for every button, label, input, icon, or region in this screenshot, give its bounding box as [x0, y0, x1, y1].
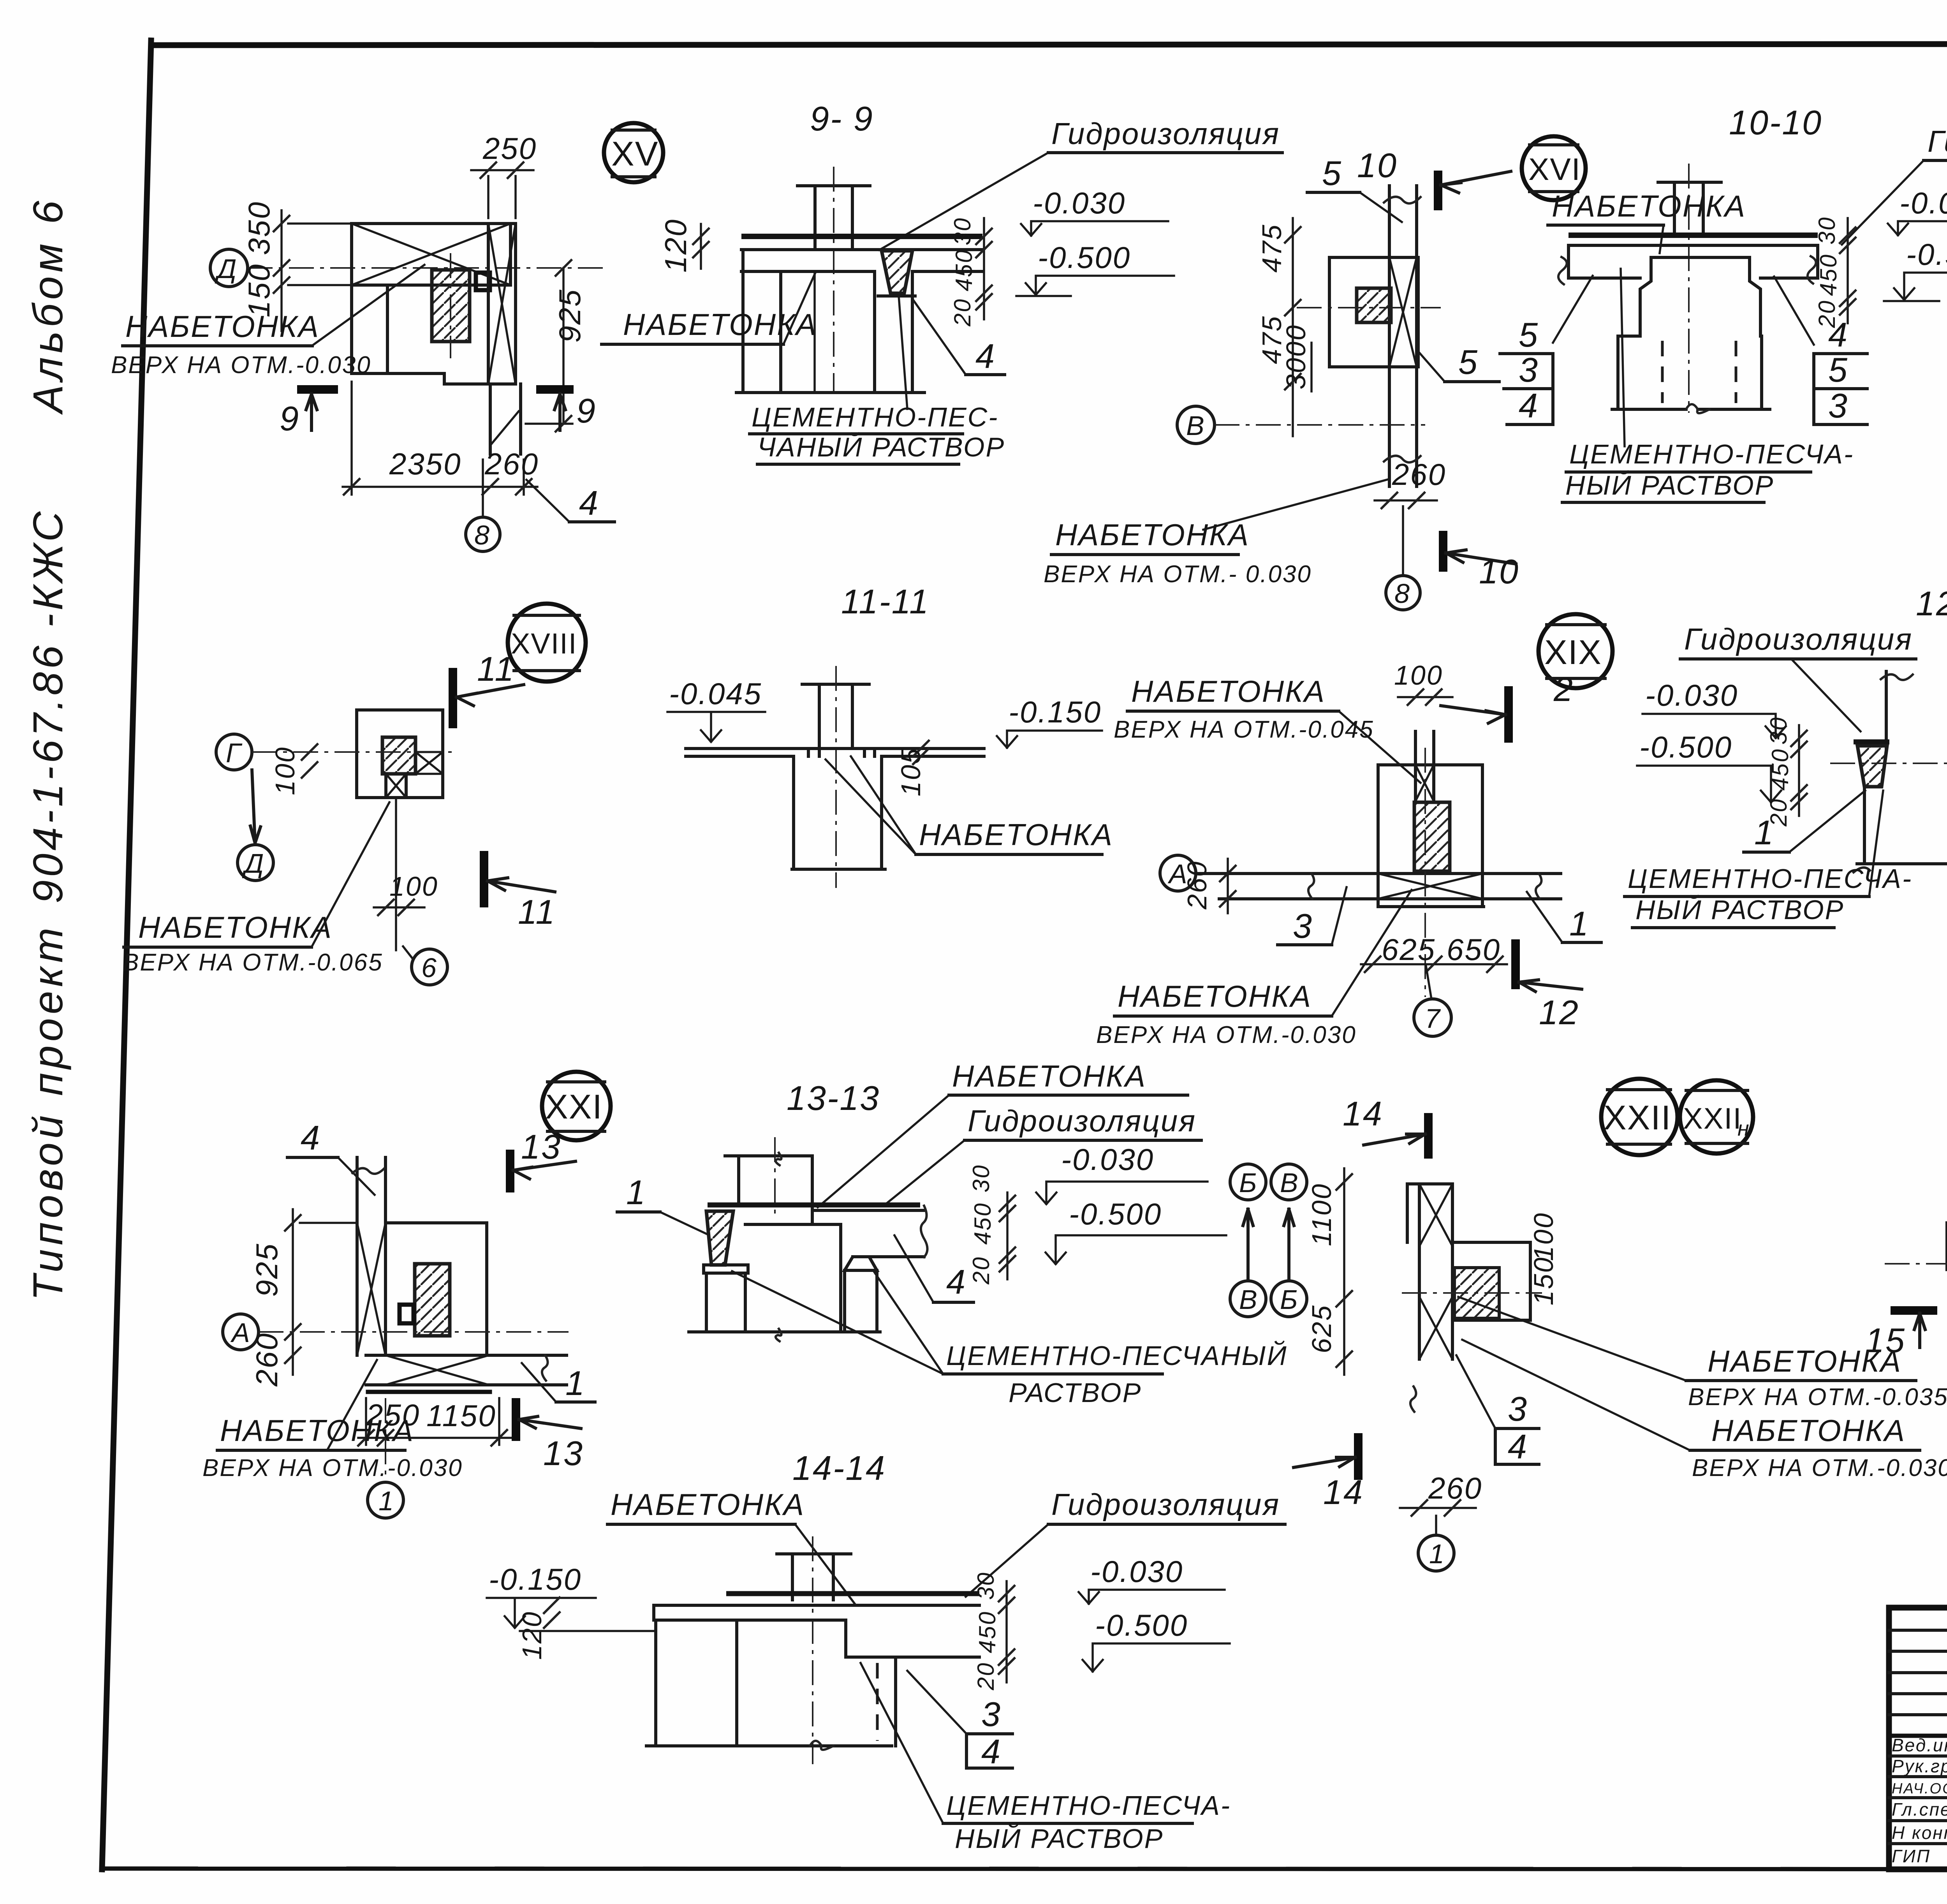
svg-text:100: 100 — [1528, 1212, 1559, 1261]
svg-text:8: 8 — [1394, 578, 1411, 609]
column — [813, 186, 817, 249]
svg-text:XVIII: XVIII — [511, 627, 577, 660]
svg-text:НАБЕТОНКА: НАБЕТОНКА — [1055, 518, 1250, 552]
svg-text:ЦЕМЕНТНО-ПЕС-: ЦЕМЕНТНО-ПЕС- — [752, 402, 998, 432]
svg-text:ВЕРХ НА ОТМ.-0.035: ВЕРХ НА ОТМ.-0.035 — [1688, 1384, 1947, 1411]
svg-text:-0.150: -0.150 — [489, 1562, 582, 1596]
svg-text:НАБЕТОНКА: НАБЕТОНКА — [1118, 979, 1312, 1013]
slab rect with cross — [352, 224, 511, 285]
section mark 15 left — [1891, 1306, 1937, 1315]
step right plate — [844, 1620, 847, 1657]
svg-text:-0.500: -0.500 — [1069, 1197, 1162, 1231]
svg-text:ЧАНЫЙ РАСТВОР: ЧАНЫЙ РАСТВОР — [757, 432, 1005, 462]
svg-text:10: 10 — [1357, 146, 1398, 185]
svg-text:625: 625 — [1382, 932, 1436, 967]
wall verticals — [356, 1157, 359, 1355]
X band bottom — [386, 774, 406, 798]
svg-text:Гидроизоляция: Гидроизоляция — [1684, 622, 1913, 656]
svg-text:4: 4 — [1519, 386, 1539, 425]
svg-text:ЦЕМЕНТНО-ПЕСЧА-: ЦЕМЕНТНО-ПЕСЧА- — [1569, 439, 1854, 469]
svg-text:1: 1 — [378, 1486, 395, 1516]
frame left line — [102, 41, 151, 1869]
column — [818, 684, 821, 749]
svg-text:5: 5 — [1458, 343, 1479, 381]
floor band — [366, 1354, 567, 1357]
foundation rect right — [1452, 1242, 1530, 1320]
cup block — [1640, 257, 1760, 336]
lower wall outline — [352, 285, 490, 384]
svg-text:XVI: XVI — [1528, 152, 1581, 187]
svg-text:5: 5 — [1519, 315, 1539, 354]
svg-text:-0.030: -0.030 — [1090, 1554, 1183, 1589]
grid circle 6 — [412, 949, 447, 985]
svg-text:ВЕРХ НА ОТМ.-0.065: ВЕРХ НА ОТМ.-0.065 — [123, 949, 383, 976]
svg-text:120: 120 — [658, 218, 693, 273]
svg-text:НАБЕТОНКА: НАБЕТОНКА — [220, 1413, 414, 1448]
dim 120 left — [544, 1598, 560, 1613]
leader — [313, 265, 424, 345]
svg-text:Н контр: Н контр — [1892, 1823, 1947, 1843]
svg-text:3000: 3000 — [1281, 324, 1311, 389]
axes — [1885, 1263, 1947, 1265]
wall break bottom — [1384, 456, 1421, 462]
column — [1885, 671, 1888, 752]
hydro layer thick — [741, 234, 982, 239]
svg-text:4: 4 — [1508, 1427, 1528, 1466]
hatched core — [382, 737, 415, 774]
leader from nabetonka label below — [1203, 479, 1389, 530]
svg-text:30: 30 — [1814, 216, 1840, 245]
svg-text:260: 260 — [1392, 457, 1446, 491]
svg-text:РАСТВОР: РАСТВОР — [1009, 1377, 1142, 1408]
plan outer square — [357, 710, 443, 798]
dim 350/150 left — [280, 210, 283, 331]
svg-text:В: В — [1280, 1168, 1299, 1198]
anchor bracket — [476, 273, 490, 290]
grid circle 8 — [482, 460, 484, 517]
svg-text:А: А — [230, 1317, 251, 1348]
svg-text:10-10: 10-10 — [1729, 103, 1822, 142]
svg-text:450: 450 — [970, 1202, 996, 1245]
axis A circle — [223, 1314, 259, 1350]
section mark 13 bottom — [512, 1398, 520, 1441]
dim 105 — [913, 741, 929, 756]
svg-text:НАБЕТОНКА: НАБЕТОНКА — [611, 1487, 805, 1522]
hatched column — [432, 270, 470, 342]
svg-text:9- 9: 9- 9 — [810, 99, 874, 138]
svg-text:Д: Д — [242, 848, 265, 879]
X band right — [415, 752, 443, 774]
svg-text:450: 450 — [951, 249, 977, 291]
svg-text:Гидроизоляция: Гидроизоляция — [1051, 1487, 1280, 1522]
section mark 9 right — [536, 385, 574, 394]
section mark 12 bottom — [1511, 939, 1520, 989]
svg-text:НАБЕТОНКА: НАБЕТОНКА — [125, 309, 320, 343]
svg-text:НАБЕТОНКА: НАБЕТОНКА — [623, 307, 817, 342]
svg-text:-0.500: -0.500 — [1038, 240, 1131, 275]
svg-text:5: 5 — [1322, 154, 1342, 192]
svg-text:30: 30 — [973, 1571, 999, 1600]
svg-text:925: 925 — [553, 289, 587, 343]
foundation walls — [741, 250, 745, 393]
left pier plate — [704, 1265, 748, 1273]
svg-text:-0.500: -0.500 — [1639, 730, 1732, 764]
svg-text:9: 9 — [280, 399, 300, 438]
svg-text:ВЕРХ НА ОТМ.- 0.030: ВЕРХ НА ОТМ.- 0.030 — [1044, 561, 1312, 588]
slab break marks — [1558, 257, 1567, 284]
anchor bracket — [400, 1305, 414, 1323]
pedestal — [792, 756, 795, 869]
axis Д circle with arrow — [238, 845, 273, 881]
svg-text:Б: Б — [1280, 1284, 1299, 1315]
big foundation block — [745, 1223, 841, 1226]
svg-text:15: 15 — [1865, 1321, 1906, 1360]
svg-text:7: 7 — [1425, 1003, 1441, 1034]
svg-text:11: 11 — [477, 650, 515, 688]
axis B circle — [1177, 406, 1215, 444]
svg-text:-0.150: -0.150 — [1009, 695, 1102, 729]
X cross in floor band — [1378, 874, 1482, 899]
svg-text:1: 1 — [565, 1364, 586, 1402]
svg-text:1100: 1100 — [1306, 1183, 1337, 1246]
svg-text:НАБЕТОНКА: НАБЕТОНКА — [1711, 1413, 1906, 1448]
section mark 11 top — [449, 668, 457, 728]
floor level line left — [654, 1604, 979, 1607]
svg-text:Г: Г — [226, 738, 243, 768]
X cross on wall — [1419, 1184, 1452, 1246]
band below with slash — [489, 384, 492, 454]
svg-text:925: 925 — [250, 1243, 284, 1297]
dim 30 450 20 right — [1847, 218, 1849, 323]
svg-text:Рук.гр.: Рук.гр. — [1892, 1756, 1947, 1776]
svg-text:ВЕРХ НА ОТМ.-0.045: ВЕРХ НА ОТМ.-0.045 — [1114, 716, 1374, 743]
svg-text:-0.030: -0.030 — [1033, 186, 1126, 220]
svg-text:НАБЕТОНКА: НАБЕТОНКА — [952, 1059, 1146, 1093]
svg-text:3: 3 — [1293, 907, 1313, 945]
svg-text:20: 20 — [949, 298, 975, 327]
svg-text:НАБЕТОНКА: НАБЕТОНКА — [919, 817, 1113, 852]
svg-text:ВЕРХ НА ОТМ.-0.030: ВЕРХ НА ОТМ.-0.030 — [1692, 1455, 1947, 1481]
svg-text:4: 4 — [981, 1732, 1002, 1771]
svg-text:-0.500: -0.500 — [1095, 1608, 1188, 1642]
svg-text:1: 1 — [1429, 1539, 1445, 1569]
axis Г circle — [216, 734, 252, 770]
grid circle 7 — [1414, 999, 1451, 1036]
signature table row lines — [1889, 1629, 1947, 1632]
base plate — [368, 1390, 490, 1394]
slab bottom left part — [654, 1619, 846, 1622]
callout circle XVIII — [508, 604, 586, 682]
axis circles В Б bottom — [1230, 1281, 1266, 1317]
hydro layer thick — [708, 1203, 920, 1208]
wall top — [725, 1154, 812, 1157]
grid circle 8 — [1402, 506, 1404, 576]
hatched core — [1357, 288, 1391, 322]
svg-text:2350: 2350 — [389, 447, 462, 481]
svg-text:-0.045: -0.045 — [669, 676, 762, 711]
svg-text:XXI: XXI — [545, 1087, 603, 1126]
hydro layer thick — [1569, 232, 1818, 238]
svg-text:100: 100 — [389, 871, 438, 902]
svg-text:150: 150 — [1528, 1256, 1559, 1305]
X cross on wall — [357, 1223, 386, 1355]
svg-text:Гл.спец.: Гл.спец. — [1892, 1799, 1947, 1819]
svg-text:НАБЕТОНКА: НАБЕТОНКА — [1552, 189, 1746, 223]
svg-text:-0.030: -0.030 — [1645, 678, 1738, 712]
svg-text:В: В — [1239, 1284, 1259, 1315]
base line — [689, 1330, 880, 1333]
svg-text:105: 105 — [896, 747, 926, 796]
svg-text:XXII: XXII — [1683, 1102, 1742, 1135]
main title block — [1889, 1608, 1947, 1869]
hydro cap on mortar — [1854, 740, 1889, 745]
hatched column — [1414, 802, 1450, 871]
svg-text:14-14: 14-14 — [792, 1449, 886, 1487]
svg-text:30: 30 — [1766, 716, 1792, 745]
svg-text:Вед.инж: Вед.инж — [1892, 1735, 1947, 1755]
svg-text:XV: XV — [611, 134, 658, 173]
svg-text:350: 350 — [242, 201, 276, 255]
callout circle XVI — [1522, 136, 1586, 200]
svg-text:Д: Д — [215, 254, 238, 284]
plan outline — [386, 1223, 487, 1355]
svg-text:ЦЕМЕНТНО-ПЕСЧАНЫЙ: ЦЕМЕНТНО-ПЕСЧАНЫЙ — [946, 1340, 1288, 1371]
mortar trapezoid — [1857, 746, 1887, 787]
svg-text:14: 14 — [1343, 1094, 1383, 1133]
foundation below — [1616, 336, 1620, 409]
section mark 9 left — [297, 385, 338, 394]
step block below — [1857, 774, 1947, 864]
section mark 14 bottom — [1354, 1433, 1363, 1480]
foundation rect — [1329, 257, 1418, 367]
svg-text:13: 13 — [521, 1127, 562, 1166]
X cross on wall — [1389, 257, 1417, 367]
section mark 2 top — [1504, 686, 1513, 743]
column centerline — [833, 167, 834, 393]
axis dash through foundation — [1297, 307, 1441, 308]
svg-text:13: 13 — [543, 1434, 584, 1472]
svg-text:5: 5 — [1828, 351, 1848, 389]
dim 925 260 left — [292, 1209, 294, 1375]
dim 925 right — [562, 268, 565, 424]
svg-text:30: 30 — [968, 1164, 994, 1192]
svg-text:НАБЕТОНКА: НАБЕТОНКА — [138, 910, 333, 944]
svg-text:НАБЕТОНКА: НАБЕТОНКА — [1131, 674, 1326, 708]
svg-text:450: 450 — [1815, 254, 1841, 296]
callout circle XXI — [542, 1072, 611, 1140]
svg-text:Гидроизоляция: Гидроизоляция — [968, 1104, 1196, 1138]
svg-text:ЦЕМЕНТНО-ПЕСЧА-: ЦЕМЕНТНО-ПЕСЧА- — [946, 1790, 1231, 1821]
svg-text:н: н — [1738, 1117, 1750, 1140]
hydro layer thick — [726, 1591, 979, 1596]
signature names column — [1892, 1735, 1947, 1866]
column centerline — [450, 253, 451, 358]
svg-text:904-1-67.86 -КЖС: 904-1-67.86 -КЖС — [24, 508, 71, 904]
svg-text:11: 11 — [518, 893, 556, 931]
svg-text:4: 4 — [975, 337, 996, 375]
vertical line from plan to dim — [395, 798, 397, 950]
dim 1100 625 left — [1343, 1168, 1345, 1375]
svg-text:НЫЙ РАСТВОР: НЫЙ РАСТВОР — [955, 1823, 1164, 1854]
mortar trapezoid — [882, 251, 912, 293]
svg-text:14: 14 — [1323, 1473, 1364, 1511]
svg-text:1150: 1150 — [426, 1398, 496, 1433]
svg-text:8: 8 — [474, 520, 491, 550]
grid circle 1 — [385, 1398, 386, 1480]
svg-text:1: 1 — [1569, 904, 1590, 943]
svg-text:XIX: XIX — [1544, 633, 1602, 671]
svg-text:100: 100 — [270, 746, 300, 795]
dim 250 1150 bottom — [358, 1437, 514, 1439]
column — [1673, 182, 1676, 235]
dim 260 left — [1227, 859, 1229, 913]
svg-text:ВЕРХ НА ОТМ.-0.030: ВЕРХ НА ОТМ.-0.030 — [202, 1455, 463, 1481]
slab — [1569, 244, 1818, 247]
section mark 11 bottom — [480, 851, 488, 907]
callout circles XXII XXIIn — [1601, 1079, 1678, 1155]
svg-text:1: 1 — [626, 1173, 646, 1212]
svg-text:-0.030: -0.030 — [1899, 186, 1947, 220]
dim 100 left — [302, 744, 317, 760]
frame top line — [152, 44, 1947, 45]
column above plan — [1414, 731, 1417, 765]
small nabetonka strips at column base — [686, 755, 794, 758]
slab plate right — [853, 1255, 924, 1258]
bottom plate — [1382, 905, 1484, 908]
floor lines across — [1196, 872, 1561, 875]
svg-text:625: 625 — [1306, 1304, 1337, 1353]
section mark 10 bottom — [1439, 531, 1447, 572]
dim 30 450 20 — [1005, 1581, 1008, 1682]
svg-text:Б: Б — [1239, 1168, 1258, 1198]
svg-text:В: В — [1186, 410, 1206, 441]
svg-text:450: 450 — [974, 1611, 1000, 1653]
svg-text:Гидроизоляция: Гидроизоляция — [1051, 116, 1280, 151]
svg-text:3: 3 — [1828, 386, 1848, 425]
svg-text:XXII: XXII — [1604, 1098, 1671, 1137]
axis dash-dot line — [248, 267, 608, 269]
svg-text:ВЕРХ НА ОТМ.-0.030: ВЕРХ НА ОТМ.-0.030 — [111, 352, 371, 379]
hatched column — [415, 1264, 450, 1336]
wall verticals — [1388, 186, 1391, 486]
svg-text:-0.030: -0.030 — [1061, 1142, 1154, 1177]
svg-text:20: 20 — [968, 1256, 994, 1285]
svg-text:260: 260 — [1428, 1471, 1482, 1505]
hatched part — [1454, 1268, 1499, 1318]
svg-text:НЫЙ РАСТВОР: НЫЙ РАСТВОР — [1635, 894, 1844, 925]
left margin vertical stamp text — [24, 197, 71, 1301]
svg-text:НАЧ.ОСПН: НАЧ.ОСПН — [1892, 1781, 1947, 1797]
svg-text:ВЕРХ НА ОТМ.-0.030: ВЕРХ НА ОТМ.-0.030 — [1096, 1022, 1357, 1048]
axis circle Д — [210, 249, 248, 287]
dashed inner verticals — [1661, 341, 1664, 403]
svg-text:450: 450 — [1767, 748, 1793, 791]
callout circle XV — [604, 123, 663, 182]
wall band — [1418, 1184, 1421, 1359]
svg-text:11-11: 11-11 — [841, 582, 929, 621]
svg-text:260: 260 — [1182, 860, 1212, 910]
title block outer border — [1889, 1608, 1947, 1869]
slab top — [812, 1209, 924, 1212]
svg-text:260: 260 — [250, 1332, 284, 1387]
svg-text:650: 650 — [1447, 932, 1501, 967]
floor line — [686, 747, 984, 750]
plan outer rect — [1378, 765, 1482, 907]
svg-text:2: 2 — [1553, 670, 1574, 708]
svg-text:3: 3 — [1508, 1390, 1528, 1428]
dim 30 450 20 — [983, 218, 985, 319]
svg-text:4: 4 — [946, 1263, 966, 1301]
slab right break — [921, 1206, 928, 1257]
callout circle XIX — [1539, 614, 1613, 688]
svg-text:475: 475 — [1257, 224, 1287, 273]
svg-text:12-12: 12-12 — [1916, 584, 1947, 623]
svg-text:ГИП: ГИП — [1892, 1846, 1931, 1866]
svg-text:250: 250 — [482, 131, 537, 166]
foundation — [654, 1620, 657, 1746]
grid circle 1 — [1435, 1516, 1437, 1534]
arrows between — [1243, 1209, 1253, 1281]
dim 120 left — [700, 224, 702, 269]
svg-text:100: 100 — [1394, 660, 1443, 690]
svg-text:4: 4 — [301, 1118, 321, 1157]
wall break top — [1384, 197, 1421, 203]
svg-text:4: 4 — [1828, 315, 1848, 354]
svg-text:13-13: 13-13 — [787, 1079, 880, 1117]
crossed band — [488, 224, 516, 384]
svg-text:4: 4 — [579, 484, 599, 522]
mortar trapezoid left — [706, 1211, 733, 1265]
svg-text:20: 20 — [973, 1662, 999, 1691]
dim 30 450 20 — [1006, 1192, 1009, 1279]
slab lines — [741, 248, 982, 251]
svg-text:3: 3 — [1519, 351, 1539, 389]
dim 30 450 20 — [1798, 725, 1800, 816]
dim 475 475 3000 — [1292, 218, 1294, 436]
svg-text:30: 30 — [949, 217, 975, 245]
svg-text:1: 1 — [1754, 813, 1774, 852]
axis circles Б В top — [1230, 1164, 1266, 1200]
svg-text:Гидроизоляция: Гидроизоляция — [1928, 124, 1947, 159]
frame bottom line — [102, 1869, 1947, 1869]
section mark 13 top — [506, 1150, 514, 1192]
dim 2350 260 bottom — [343, 486, 537, 488]
svg-text:Типовой проект: Типовой проект — [24, 924, 71, 1301]
svg-text:12: 12 — [1539, 993, 1579, 1032]
svg-text:Альбом 6: Альбом 6 — [24, 197, 71, 415]
svg-text:260: 260 — [484, 447, 539, 481]
centerline vertical — [1424, 748, 1426, 997]
svg-text:6: 6 — [421, 953, 438, 983]
axis A circle — [1160, 855, 1196, 891]
column — [791, 1554, 794, 1600]
svg-text:-0.500: -0.500 — [1906, 237, 1947, 271]
svg-text:3: 3 — [981, 1695, 1002, 1733]
X band top — [1415, 765, 1434, 801]
svg-text:9: 9 — [576, 391, 597, 430]
svg-text:120: 120 — [517, 1611, 547, 1660]
svg-text:10: 10 — [1479, 552, 1519, 591]
svg-text:НЫЙ РАСТВОР: НЫЙ РАСТВОР — [1565, 470, 1774, 500]
